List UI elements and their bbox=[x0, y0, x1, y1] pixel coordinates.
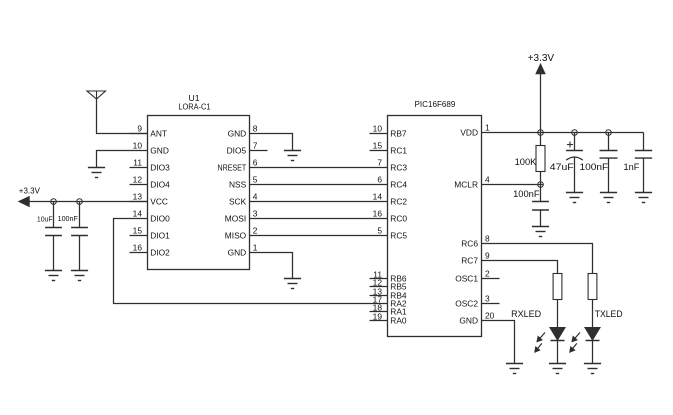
svg-text:DIO3: DIO3 bbox=[150, 162, 170, 172]
svg-text:DIO5: DIO5 bbox=[227, 145, 247, 155]
U1 pin 15 DIO1 bbox=[130, 226, 171, 241]
svg-text:VCC: VCC bbox=[150, 196, 168, 206]
svg-text:RC4: RC4 bbox=[390, 179, 407, 189]
capacitor C 10uF bbox=[37, 202, 62, 271]
U2 pin 8 RC6 bbox=[461, 234, 499, 249]
svg-text:RC5: RC5 bbox=[390, 230, 407, 240]
svg-text:RC0: RC0 bbox=[390, 213, 407, 223]
U2 pin 5 RC5 bbox=[370, 226, 408, 241]
svg-text:SCK: SCK bbox=[229, 196, 247, 206]
U2 pin 12 RB5 bbox=[370, 277, 407, 291]
U1 pin 12 DIO4 bbox=[130, 175, 171, 190]
svg-text:GND: GND bbox=[150, 145, 169, 155]
svg-text:4: 4 bbox=[485, 175, 490, 185]
svg-text:GND: GND bbox=[459, 315, 478, 325]
U1 pin 7 DIO5 bbox=[227, 141, 268, 156]
wire MCLR bbox=[500, 184, 544, 186]
svg-text:10uF: 10uF bbox=[37, 215, 53, 224]
node junction 10uF tap bbox=[51, 199, 57, 205]
svg-text:7: 7 bbox=[377, 158, 382, 168]
wire U1 GND pin10 to ground bbox=[97, 151, 130, 168]
svg-text:47uF: 47uF bbox=[550, 162, 574, 173]
power flag +3.3V top bbox=[528, 53, 555, 133]
U1 pin 4 SCK bbox=[229, 192, 268, 207]
U1 pin 13 VCC bbox=[130, 192, 168, 207]
power flag +3.3V left bbox=[19, 186, 41, 206]
svg-text:VDD: VDD bbox=[460, 127, 478, 137]
U2 pin 14 RC2 bbox=[370, 192, 408, 207]
svg-text:DIO0: DIO0 bbox=[150, 213, 170, 223]
svg-text:4: 4 bbox=[253, 192, 258, 202]
U2 pin 7 RC3 bbox=[370, 158, 408, 173]
wire MISO-RC5 bbox=[268, 235, 370, 237]
ground bbox=[506, 364, 523, 374]
svg-text:2: 2 bbox=[253, 226, 258, 236]
U2 pin 9 RC7 bbox=[461, 251, 499, 266]
wire NRESET-RC3 bbox=[268, 167, 370, 169]
svg-text:2: 2 bbox=[485, 269, 490, 279]
node junction MCLR bbox=[538, 182, 544, 188]
resistor R 100K bbox=[515, 133, 545, 185]
U2 pin 20 GND bbox=[459, 311, 499, 326]
wire +3.3V to U1 VCC bbox=[29, 201, 147, 203]
U1 pin 3 MOSI bbox=[225, 209, 268, 224]
ground bbox=[566, 193, 583, 203]
U2 pin 6 RC4 bbox=[370, 175, 408, 190]
wire NSS-RC4 bbox=[268, 184, 370, 186]
U2 pin 10 RB7 bbox=[370, 124, 407, 139]
U1 pin 2 MISO bbox=[225, 226, 268, 241]
chip U1 LORA-C1 body bbox=[148, 93, 250, 269]
svg-text:+3.3V: +3.3V bbox=[19, 186, 41, 195]
svg-text:6: 6 bbox=[253, 158, 258, 168]
svg-text:3: 3 bbox=[485, 294, 490, 304]
svg-text:DIO1: DIO1 bbox=[150, 230, 170, 240]
svg-text:GND: GND bbox=[228, 128, 247, 138]
svg-text:13: 13 bbox=[133, 192, 143, 202]
svg-text:RC1: RC1 bbox=[390, 145, 407, 155]
ground bbox=[549, 364, 566, 374]
svg-text:RC7: RC7 bbox=[461, 255, 478, 265]
svg-text:1nF: 1nF bbox=[624, 162, 640, 173]
svg-text:15: 15 bbox=[373, 141, 383, 151]
chip U2 PIC16F689 body bbox=[388, 99, 482, 336]
svg-text:6: 6 bbox=[377, 175, 382, 185]
svg-text:GND: GND bbox=[228, 247, 247, 257]
svg-text:DIO4: DIO4 bbox=[150, 179, 170, 189]
ground bbox=[45, 271, 62, 281]
svg-text:9: 9 bbox=[485, 251, 490, 261]
svg-text:100nF: 100nF bbox=[513, 189, 540, 200]
svg-text:MOSI: MOSI bbox=[225, 213, 246, 223]
ground bbox=[635, 193, 652, 203]
svg-text:+3.3V: +3.3V bbox=[528, 53, 555, 64]
ground bbox=[532, 227, 549, 237]
U1 pin 5 NSS bbox=[229, 175, 268, 190]
U2 pin 11 RB6 bbox=[370, 269, 407, 283]
resistor RXLED series bbox=[553, 274, 562, 300]
U1 pin 14 DIO0 bbox=[130, 209, 171, 224]
svg-text:MISO: MISO bbox=[225, 230, 247, 240]
capacitor C 100nF (MCLR) bbox=[513, 185, 549, 227]
svg-text:DIO2: DIO2 bbox=[150, 247, 170, 257]
svg-text:5: 5 bbox=[253, 175, 258, 185]
svg-text:OSC1: OSC1 bbox=[455, 273, 478, 283]
U2 pin 15 RC1 bbox=[370, 141, 408, 156]
svg-text:8: 8 bbox=[253, 124, 258, 134]
U2 pin 13 RB4 bbox=[370, 286, 407, 300]
svg-text:RA0: RA0 bbox=[390, 315, 407, 325]
wire U1 DIO0 to U2 RA2 bbox=[114, 219, 370, 304]
svg-text:15: 15 bbox=[133, 226, 143, 236]
svg-text:RC6: RC6 bbox=[461, 238, 478, 248]
U1 pin 10 GND bbox=[130, 141, 169, 156]
svg-text:RC2: RC2 bbox=[390, 196, 407, 206]
svg-text:1: 1 bbox=[253, 243, 258, 253]
U2 pin 19 RA0 bbox=[370, 311, 407, 325]
U1 pin 9 ANT bbox=[130, 124, 168, 139]
U2 pin 3 OSC2 bbox=[455, 294, 499, 309]
U1 pin 16 DIO2 bbox=[130, 243, 171, 258]
U1 pin 8 GND bbox=[228, 124, 268, 139]
svg-text:8: 8 bbox=[485, 234, 490, 244]
wire resistor to LED TXLED bbox=[592, 300, 594, 328]
capacitor C 1nF bbox=[624, 133, 653, 193]
wire MOSI-RC0 bbox=[268, 218, 370, 220]
svg-text:NRESET: NRESET bbox=[218, 162, 247, 172]
capacitor C 100nF (VDD) bbox=[580, 133, 618, 193]
wire VDD rail bbox=[500, 132, 644, 134]
wire U2 RXLED net bbox=[500, 261, 558, 274]
wire resistor to LED RXLED bbox=[557, 300, 559, 328]
svg-text:12: 12 bbox=[133, 175, 143, 185]
U1 pin 6 NRESET bbox=[218, 158, 268, 173]
svg-text:NSS: NSS bbox=[229, 179, 247, 189]
U1 pin 11 DIO3 bbox=[130, 158, 171, 173]
resistor TXLED series bbox=[588, 274, 597, 300]
node junction VDD/100K bbox=[538, 130, 544, 136]
ground bbox=[584, 364, 601, 374]
svg-text:100nF: 100nF bbox=[58, 214, 79, 223]
svg-text:1: 1 bbox=[485, 123, 490, 133]
capacitor C 100nF (left) bbox=[58, 202, 88, 271]
svg-text:20: 20 bbox=[485, 311, 495, 321]
svg-text:MCLR: MCLR bbox=[454, 179, 478, 189]
U2 pin 17 RA2 bbox=[370, 294, 407, 308]
svg-text:9: 9 bbox=[137, 124, 142, 134]
svg-text:14: 14 bbox=[373, 192, 383, 202]
svg-text:TXLED: TXLED bbox=[595, 309, 623, 320]
LED RXLED bbox=[511, 309, 565, 352]
ground bbox=[71, 271, 88, 281]
ground bbox=[284, 279, 301, 289]
U2 pin 18 RA1 bbox=[370, 302, 407, 316]
wire antenna to U1 ANT bbox=[97, 99, 148, 134]
svg-text:RC3: RC3 bbox=[390, 162, 407, 172]
wire U2 TXLED net bbox=[500, 244, 593, 274]
wire LED RXLED to ground bbox=[557, 341, 559, 364]
svg-text:10: 10 bbox=[133, 141, 143, 151]
wire U2 GND pin20 to ground bbox=[500, 321, 515, 364]
svg-text:10: 10 bbox=[373, 124, 383, 134]
U2 pin 2 OSC1 bbox=[455, 269, 499, 284]
svg-text:RXLED: RXLED bbox=[511, 309, 541, 320]
svg-text:16: 16 bbox=[133, 243, 143, 253]
ground bbox=[600, 193, 617, 203]
svg-text:OSC2: OSC2 bbox=[455, 298, 478, 308]
U2 pin 1 VDD bbox=[460, 123, 499, 138]
U2 pin 4 MCLR bbox=[454, 175, 499, 190]
wire U1 GND pin1 to ground bbox=[268, 253, 293, 279]
svg-text:100K: 100K bbox=[515, 157, 537, 168]
svg-text:100nF: 100nF bbox=[580, 162, 609, 173]
wire SCK-RC2 bbox=[268, 201, 370, 203]
node junction VDD/100nF bbox=[606, 130, 612, 136]
svg-text:PIC16F689: PIC16F689 bbox=[415, 99, 456, 109]
svg-text:7: 7 bbox=[253, 141, 258, 151]
svg-text:ANT: ANT bbox=[150, 128, 167, 138]
svg-text:11: 11 bbox=[133, 158, 142, 168]
LED TXLED bbox=[570, 309, 623, 352]
svg-text:RB7: RB7 bbox=[390, 128, 407, 138]
svg-text:14: 14 bbox=[133, 209, 143, 219]
capacitor C 47uF polarized bbox=[550, 133, 583, 193]
svg-text:3: 3 bbox=[253, 209, 258, 219]
node junction 100nF tap bbox=[77, 199, 83, 205]
ground bbox=[284, 151, 301, 161]
svg-text:19: 19 bbox=[373, 311, 383, 321]
antenna bbox=[87, 91, 106, 99]
node junction VDD/47uF bbox=[572, 130, 578, 136]
wire LED TXLED to ground bbox=[592, 341, 594, 364]
ground bbox=[88, 168, 105, 178]
svg-text:16: 16 bbox=[373, 209, 383, 219]
wire U1 GND pin8 to ground bbox=[268, 134, 293, 151]
svg-text:5: 5 bbox=[377, 226, 382, 236]
svg-text:LORA-C1: LORA-C1 bbox=[178, 102, 210, 112]
U2 pin 16 RC0 bbox=[370, 209, 408, 224]
U1 pin 1 GND bbox=[228, 243, 268, 258]
